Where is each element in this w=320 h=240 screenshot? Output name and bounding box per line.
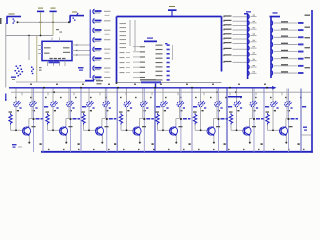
- column wire right of LED D12: [218, 89, 220, 153]
- IC U2 main controller outline: [116, 17, 222, 85]
- U1 right pins: [72, 44, 78, 55]
- column wire divider x=43: [42, 89, 44, 153]
- wire resistor R2 to base: [48, 125, 62, 131]
- wire resistor R8 to base: [268, 125, 282, 131]
- wire LED D2 cathode down: [29, 107, 32, 127]
- resistor R7: [229, 111, 233, 124]
- wire LED D4 cathode down: [66, 107, 69, 127]
- connector J3 vertical spine: [89, 10, 91, 79]
- net tag at divider x=155: [156, 106, 160, 108]
- wire stub above LED D7: [126, 89, 128, 102]
- wire LED D15 cathode down: [272, 107, 274, 130]
- column wire divider x=155: [154, 89, 156, 153]
- wire LED D13 cathode down: [236, 107, 238, 130]
- junction dot and net dash on column (cell 6): [217, 118, 228, 120]
- wire emitter Q3 down to rail: [101, 136, 103, 144]
- net mark near divider bottom (cell 4): [152, 143, 154, 145]
- wire stub above LED D2: [31, 89, 33, 102]
- column wire divider x=81: [80, 89, 82, 153]
- LED D12: [215, 101, 223, 112]
- U2 internal pin labels left side: [120, 23, 127, 48]
- wire LED D5 cathode down: [88, 107, 90, 130]
- resistor R4: [119, 111, 123, 124]
- wire LED D3 cathode down: [52, 107, 54, 130]
- long vertical wire left margin: [5, 23, 7, 88]
- bus wire blue with arrow end: [9, 86, 277, 90]
- wire vertical inside U2 x=135: [134, 20, 136, 51]
- LED D11: [198, 101, 206, 112]
- wire stub above LED D6: [104, 89, 106, 102]
- connector J3 header pins (column of hooks): [93, 9, 111, 80]
- net tag at divider x=227: [228, 106, 232, 108]
- net tag at divider x=81: [82, 106, 86, 108]
- net mark near divider bottom (cell 7): [261, 143, 263, 145]
- net number specks row: [15, 97, 302, 98]
- power rail VCC bar over U2: [168, 6, 177, 17]
- wire stub above LED D4: [68, 89, 70, 102]
- column wire right of LED D4: [70, 89, 72, 153]
- column wire divider x=301: [300, 89, 302, 153]
- wire stub left edge to bus: [5, 94, 7, 101]
- net tag at divider x=192: [193, 106, 197, 108]
- transistor Q6: [207, 126, 220, 136]
- LED D7: [124, 101, 132, 112]
- junction dot and net dash on column (cell 7): [253, 118, 264, 120]
- small part right of sub-block: [165, 43, 173, 60]
- LED D3: [51, 101, 59, 112]
- resistor R5: [156, 111, 160, 124]
- transistor Q2: [59, 126, 72, 136]
- crystal value label: [78, 67, 84, 71]
- transistor Q4: [133, 126, 146, 136]
- wire resistor R7 to base: [231, 125, 245, 131]
- net mark near divider bottom (cell 5): [189, 143, 191, 145]
- CN2 designator label: [273, 12, 278, 13]
- wire from sub-block down to bus: [155, 84, 157, 88]
- net mark near divider bottom (cell 2): [78, 143, 80, 145]
- transistor Q1: [22, 126, 35, 136]
- extra part bottom-left: [12, 144, 22, 148]
- capacitor C1 label bits: [11, 77, 16, 81]
- wire from VCC bar 2 down: [52, 12, 54, 35]
- resistor R6: [193, 111, 197, 124]
- wires U1 right pins to header: [77, 45, 90, 55]
- LED D9: [161, 101, 169, 112]
- net mark near divider bottom (cell 6): [224, 143, 226, 145]
- wire emitter Q2 down to rail: [65, 136, 67, 144]
- sheet border right edge: [311, 10, 313, 153]
- net name wire segment near x=230: [228, 96, 242, 98]
- wire LED D6 cathode down: [102, 107, 105, 127]
- wire LED D16 cathode down: [286, 107, 287, 127]
- LED D5: [87, 101, 95, 112]
- wire stub above LED D14: [252, 89, 254, 102]
- U1 left pins: [38, 46, 42, 54]
- wire stub above LED D5: [88, 89, 90, 102]
- wire resistor R5 to base: [158, 125, 172, 131]
- junction dot and net dash on column (cell 4): [143, 118, 154, 120]
- LED D10: [177, 101, 185, 112]
- sub-block LP header bar: [144, 38, 157, 43]
- gray net line y=92 with ticks: [11, 91, 311, 95]
- net tag at divider x=43: [44, 106, 48, 108]
- LED D16: [285, 101, 293, 112]
- column wire right of LED D14: [253, 89, 255, 153]
- power rail VCC bar 2: [50, 8, 57, 13]
- wire stub above LED D15: [272, 89, 274, 102]
- resistor network RN1 (connector column): [244, 14, 257, 80]
- LED D14: [250, 101, 258, 112]
- net mark near divider bottom (cell 1): [40, 143, 42, 145]
- big box left edge continuation to lower rail (x=117): [116, 89, 118, 153]
- net labels above bus: [30, 84, 266, 85]
- wire J1 to J2 (net at y=22.3): [17, 21, 70, 23]
- LED D1: [14, 101, 22, 112]
- U2 right pin labels AD0-AD7 with wires to RN1: [222, 15, 247, 62]
- wire stub above LED D8: [142, 89, 144, 102]
- net mark near divider bottom (cell 3): [114, 143, 116, 145]
- LED D4: [67, 101, 75, 112]
- capacitor C2 cluster: [31, 67, 42, 75]
- connector CN2 (column of hooks right): [270, 16, 281, 78]
- net label XTAL specks: [56, 29, 62, 33]
- net tag at divider x=264: [265, 106, 269, 108]
- resistor R2: [46, 111, 50, 124]
- column wire right of LED D2: [33, 89, 35, 153]
- wire resistor R3 to base: [84, 125, 98, 131]
- wire LED D12 cathode down: [214, 107, 218, 127]
- wire resistor R4 to base: [121, 125, 135, 131]
- wire emitter Q1 down to rail: [28, 136, 30, 144]
- small part near right border bottom: [301, 127, 311, 136]
- wire vertical inside U2 x=130: [129, 20, 131, 46]
- U1 bottom pins: [48, 61, 66, 66]
- wire horizontal y=35.5: [6, 35, 53, 37]
- sub-block left column rows: [133, 46, 145, 78]
- U1 top pins: [52, 38, 60, 42]
- resistor R8: [266, 111, 270, 124]
- junction dot and net dash on column (cell 1): [32, 118, 43, 120]
- wire from VCC bar 1 down: [40, 12, 42, 35]
- crystal Y1 cluster: [15, 65, 24, 76]
- sheet border bottom edge: [41, 151, 313, 153]
- edge-clipped label left margin: [0, 18, 2, 24]
- connector J2 (top): [68, 12, 84, 24]
- CN2 wires to off-page labels: [274, 21, 304, 74]
- wire stub above LED D12: [216, 89, 218, 102]
- LED D2: [30, 101, 38, 112]
- transistor Q5: [169, 126, 182, 136]
- column wire right of LED D6: [106, 89, 108, 153]
- resistor R3: [82, 111, 86, 124]
- junction dots on bus: [43, 87, 268, 89]
- wire vertical olive x=36.8: [36, 36, 38, 83]
- junction dot and net dash on column (cell 8): [287, 118, 298, 120]
- wire stub above LED D16: [286, 89, 288, 102]
- sub-block right column rows: [156, 44, 170, 80]
- wire resistor R6 to base: [195, 125, 209, 131]
- net mark near divider bottom (cell 8): [298, 143, 300, 145]
- wire stub above LED D1: [15, 89, 17, 102]
- off-page labels at right border: [305, 15, 311, 69]
- wire resistor R1 to base: [11, 125, 25, 131]
- resistor R1: [9, 111, 13, 124]
- transistor Q8: [279, 126, 292, 136]
- U2 internal pin labels lower-left: [120, 52, 131, 73]
- junction dot and net dash on column (cell 3): [106, 118, 117, 120]
- LED D6: [103, 101, 111, 112]
- connector J1 (power jack, top-left): [7, 14, 22, 25]
- wire LED D1 cathode down: [15, 107, 17, 130]
- column wire divider x=227: [226, 89, 228, 153]
- transistor Q3: [95, 126, 108, 136]
- wire LED D11 cathode down: [200, 107, 202, 130]
- wire LED D14 cathode down: [249, 107, 252, 127]
- wire emitter Q8 down to rail: [285, 136, 287, 144]
- column wire divider x=264: [263, 89, 265, 153]
- wire LED D10 cathode down: [176, 107, 180, 127]
- column wire divider x=192: [191, 89, 193, 153]
- wire vertical x=29: [28, 36, 30, 61]
- wire emitter Q4 down to rail: [139, 136, 141, 144]
- power rail VCC bar 1: [37, 8, 44, 13]
- LED D8: [140, 101, 148, 112]
- wire stub above LED D13: [236, 89, 238, 102]
- wire LED D7 cathode down: [126, 107, 128, 130]
- RN1 designator label: [246, 11, 251, 12]
- LED D13: [234, 101, 242, 112]
- U1 designator text: [49, 62, 60, 64]
- bottom tick labels row: [48, 149, 305, 150]
- wire stub above LED D11: [200, 89, 202, 102]
- wire LED D8 cathode down: [139, 107, 142, 127]
- LED D15: [271, 101, 279, 112]
- column wire right of LED D10: [180, 89, 182, 153]
- wire emitter Q7 down to rail: [249, 136, 251, 144]
- junction dot and net dash on column (cell 5): [180, 118, 191, 120]
- wire y=82 with power bar: [16, 80, 102, 85]
- junction dot and net dash on column (cell 2): [69, 118, 80, 120]
- J3 bottom label: [96, 80, 103, 81]
- column wire right of LED D16: [288, 89, 290, 153]
- wire stub above LED D9: [162, 89, 164, 102]
- column wire right of LED D8: [143, 89, 145, 153]
- net tag at divider x=301: [302, 106, 306, 108]
- transistor Q7: [243, 126, 256, 136]
- wire stub above LED D3: [52, 89, 54, 102]
- IC U1 (microcontroller box): [42, 41, 72, 60]
- wire stub above LED D10: [178, 89, 180, 102]
- wire emitter Q6 down to rail: [213, 136, 215, 144]
- wire emitter Q5 down to rail: [175, 136, 177, 144]
- wire LED D9 cathode down: [162, 107, 164, 130]
- sub-block ALM OUT label: [140, 79, 161, 83]
